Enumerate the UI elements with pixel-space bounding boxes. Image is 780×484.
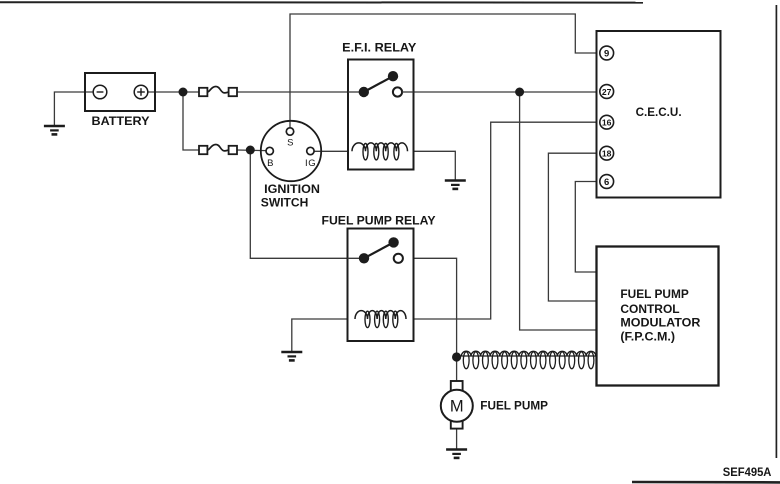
fuel pump control modulator F.P.C.M. bbox=[597, 247, 719, 386]
fuel pump motor M bbox=[441, 381, 549, 429]
ignition switch bbox=[261, 121, 321, 210]
svg-text:SWITCH: SWITCH bbox=[261, 198, 309, 210]
wire fuel pump relay coil to ground bbox=[292, 319, 356, 352]
fuel pump relay bbox=[322, 215, 436, 341]
wire ignition terminal IG to E.F.I. relay coil bbox=[315, 150, 353, 152]
wire CECU pin 6 to F.P.C.M. bbox=[575, 182, 600, 273]
svg-text:(F.P.C.M.): (F.P.C.M.) bbox=[620, 332, 675, 344]
svg-text:16: 16 bbox=[602, 118, 612, 128]
CECU pin 18 bbox=[600, 146, 614, 160]
E.F.I. relay contact bbox=[348, 71, 414, 97]
figure code SEF495A bbox=[723, 465, 772, 479]
junction ignition B feed node bbox=[246, 146, 255, 155]
svg-text:C.E.C.U.: C.E.C.U. bbox=[636, 107, 682, 119]
wire CECU pin 18 to F.P.C.M. bbox=[548, 153, 600, 301]
svg-text:FUEL PUMP RELAY: FUEL PUMP RELAY bbox=[322, 215, 436, 227]
wire fuel pump relay contact to fuel pump junction bbox=[398, 258, 456, 357]
svg-text:IGNITION: IGNITION bbox=[264, 184, 320, 196]
junction battery feed node bbox=[179, 88, 188, 97]
svg-text:B: B bbox=[267, 158, 273, 169]
fuse F2 bbox=[199, 145, 237, 155]
svg-text:SEF495A: SEF495A bbox=[723, 465, 772, 479]
shielded cable (coiled) fuel pump junction to F.P.C.M. bbox=[457, 351, 597, 369]
wire fuel pump junction down to fuel pump motor bbox=[456, 357, 458, 382]
ground (fuel pump relay coil) bbox=[281, 352, 302, 360]
wire E.F.I. relay contact to CECU pin 27 bbox=[398, 91, 601, 93]
E.F.I. relay coil bbox=[352, 143, 408, 160]
svg-text:27: 27 bbox=[602, 87, 612, 97]
wire battery positive to fuse F1 bbox=[148, 91, 200, 93]
svg-text:S: S bbox=[287, 137, 293, 148]
svg-text:M: M bbox=[450, 398, 464, 416]
svg-text:6: 6 bbox=[604, 177, 609, 188]
wire junction on pin 27 line down to F.P.C.M. bbox=[520, 92, 597, 330]
junction fuel pump node bbox=[452, 352, 461, 361]
wire ignition B junction to fuel pump relay contact bbox=[250, 150, 364, 258]
wire ignition terminal S to CECU pin 9 bbox=[290, 14, 600, 128]
svg-text:FUEL PUMP: FUEL PUMP bbox=[480, 400, 548, 412]
CECU pin 16 bbox=[600, 115, 614, 129]
svg-text:CONTROL: CONTROL bbox=[620, 304, 679, 316]
C.E.C.U. control unit bbox=[597, 31, 721, 198]
wire E.F.I. relay coil to ground bbox=[408, 151, 456, 180]
terminal IG bbox=[305, 147, 316, 169]
svg-text:9: 9 bbox=[604, 48, 609, 59]
wire fuse F2 to ignition terminal B bbox=[237, 149, 266, 152]
fuel pump relay coil bbox=[355, 311, 406, 328]
svg-text:FUEL PUMP: FUEL PUMP bbox=[620, 289, 689, 301]
terminal B bbox=[266, 147, 273, 169]
svg-text:18: 18 bbox=[602, 149, 612, 159]
wire fuse F1 to E.F.I. relay contact bbox=[237, 91, 364, 93]
svg-text:IG: IG bbox=[305, 158, 316, 169]
svg-text:E.F.I. RELAY: E.F.I. RELAY bbox=[342, 43, 417, 55]
CECU pin 6 bbox=[600, 175, 614, 189]
ground (battery) bbox=[44, 126, 65, 134]
E.F.I. relay bbox=[342, 43, 417, 170]
ground (fuel pump motor) bbox=[446, 450, 467, 458]
junction on pin 27 line (F.P.C.M. feed) bbox=[515, 88, 524, 97]
wire battery negative to ground bbox=[54, 92, 93, 126]
terminal S bbox=[286, 128, 293, 149]
fuel pump relay contact bbox=[348, 237, 403, 263]
ground (E.F.I. relay coil) bbox=[445, 181, 466, 189]
fuse F1 bbox=[199, 87, 237, 97]
wire fuel pump motor to ground bbox=[456, 428, 458, 450]
svg-text:MODULATOR: MODULATOR bbox=[620, 318, 701, 330]
svg-text:BATTERY: BATTERY bbox=[92, 116, 150, 128]
wire battery junction down to fuse F2 bbox=[183, 92, 199, 150]
battery BATTERY bbox=[85, 73, 155, 128]
CECU pin 9 bbox=[600, 46, 614, 60]
CECU pin 27 bbox=[600, 85, 614, 99]
wire fuel pump relay coil to CECU pin 16 bbox=[406, 122, 600, 319]
